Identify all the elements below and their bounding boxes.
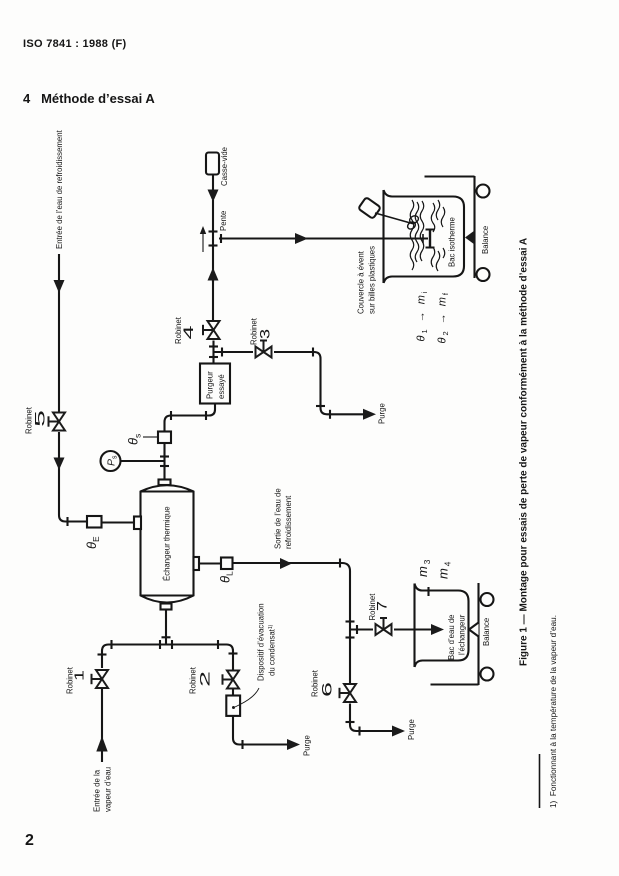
wire: right vertical down to robinet 6 — [349, 630, 351, 683]
wire: robinet 7 branch — [350, 628, 373, 630]
wire: steam inlet up — [101, 688, 103, 762]
svg-text:refroidissement: refroidissement — [284, 495, 293, 549]
tick after elbow — [66, 517, 68, 526]
tick after elbow — [358, 727, 360, 736]
tick after tee — [221, 348, 223, 357]
svg-text:Purge: Purge — [407, 719, 416, 740]
wire: valve 5 down to elbow and right to thetaE — [59, 432, 87, 522]
tick after lower elbow — [329, 410, 331, 419]
valve robinet 6 — [340, 684, 357, 702]
svg-text:θ2 → mf: θ2 → mf — [437, 291, 451, 344]
svg-text:vapeur d’eau: vapeur d’eau — [104, 767, 113, 812]
wire: theta-s down to vessel nozzle — [163, 443, 165, 480]
arrow up on steam inlet — [96, 736, 107, 752]
wire: valve 6 down elbow right to purge — [350, 704, 393, 732]
wire: purgeur outlet elbow left — [165, 404, 216, 432]
bac d'eau de l'echangeur beaker — [415, 584, 469, 668]
dip tube tee bar — [429, 230, 431, 248]
arrow down on vent line — [208, 190, 219, 203]
wire: valve 7 to bac d'eau — [394, 628, 432, 630]
valve robinet 5 — [49, 413, 66, 431]
tick near elbow — [170, 411, 172, 420]
balance 2 platform line — [477, 583, 479, 685]
svg-text:Balance: Balance — [481, 226, 490, 254]
svg-text:Purgeur: Purgeur — [206, 371, 215, 399]
flange tick upper — [209, 230, 218, 232]
wire: device down elbow right to purge — [233, 716, 288, 745]
balance 2 pointer — [469, 623, 479, 637]
arrow down on cooling inlet — [54, 280, 65, 293]
arrow up on steam line — [208, 268, 219, 281]
theta-s label lead — [143, 436, 158, 438]
valve robinet 3 — [256, 341, 272, 358]
vessel bottom nozzle — [161, 604, 172, 610]
svg-text:θs: θs — [126, 434, 143, 445]
svg-text:θ1 → mi: θ1 → mi — [416, 289, 430, 341]
svg-text:Purge: Purge — [303, 735, 312, 756]
tick after elbow — [241, 740, 243, 749]
arrow into bac d'eau — [431, 624, 444, 635]
balance 1 wheel bottom — [477, 268, 490, 281]
svg-text:4: 4 — [180, 325, 196, 339]
footnote rule — [539, 754, 541, 808]
valve robinet 2 — [223, 671, 240, 689]
tick on outlet horizontal — [205, 411, 207, 420]
svg-text:1) Fonctionnant à la températ: 1) Fonctionnant à la température de la v… — [549, 615, 558, 808]
tick on header left — [110, 640, 112, 649]
wire: valve 2 to device — [232, 689, 234, 695]
balance 1 wheel top — [477, 185, 490, 198]
svg-text:l’échangeur: l’échangeur — [458, 614, 467, 655]
svg-text:1: 1 — [72, 670, 87, 681]
theta-s sensor box — [158, 432, 171, 444]
right vertical: ticks — [346, 620, 355, 622]
water ripples — [410, 200, 445, 271]
casse-vide device (rounded rect) — [206, 153, 219, 175]
valve robinet 4 — [203, 321, 220, 339]
wire: vessel bottom to header — [165, 610, 167, 645]
heading 4 Méthode d'essai A — [23, 91, 155, 106]
balance 2 floor line — [431, 683, 479, 685]
junction ticks at vessel drop — [159, 640, 161, 649]
condensate evacuation device box — [226, 696, 240, 716]
wire: robinet 3 branch from tee — [214, 351, 254, 353]
svg-text:Casse-vide: Casse-vide — [220, 147, 229, 186]
svg-text:Entrée de la: Entrée de la — [93, 769, 102, 812]
svg-text:essayé: essayé — [217, 374, 226, 399]
wire: valve 4 to purgeur — [212, 341, 214, 364]
wire: steam line down to valve 4 — [212, 280, 214, 320]
balance 2 wheel bottom — [481, 668, 494, 681]
Ps gauge circle — [101, 451, 121, 471]
water level tick in bac d'eau — [427, 587, 429, 596]
tick before elbow — [346, 721, 355, 723]
stirrer shaft — [375, 213, 414, 224]
svg-text:6: 6 — [319, 682, 335, 697]
arrow right on sortie line — [280, 558, 292, 569]
leader to dispositif label — [235, 688, 259, 707]
svg-text:Sortie de l’eau de: Sortie de l’eau de — [274, 488, 283, 549]
svg-text:5: 5 — [32, 410, 48, 427]
svg-text:m4: m4 — [436, 560, 453, 579]
svg-text:2: 2 — [197, 671, 213, 687]
wire: vent line down to tee — [212, 200, 214, 239]
dot in device — [232, 706, 235, 709]
wire: condensate line into bac isotherme — [219, 237, 428, 239]
cross tick on drop — [162, 636, 171, 638]
wire: valve 1 up elbow right into header — [102, 645, 233, 670]
balance 1 platform line — [473, 176, 475, 278]
svg-text:Dispositif d’évacuation: Dispositif d’évacuation — [257, 603, 266, 681]
heat exchanger vessel — [141, 485, 194, 602]
svg-text:7: 7 — [374, 601, 390, 611]
arrow down below valve 5 — [54, 458, 65, 471]
wire: cooling inlet down — [58, 254, 60, 412]
svg-text:Balance: Balance — [482, 618, 491, 646]
wire: thetaL to right, elbow down — [233, 563, 351, 630]
vessel left nozzle — [134, 517, 141, 530]
tick before valve 7 — [356, 625, 358, 634]
valve robinet 7 — [376, 618, 392, 635]
purge arrow 2 — [363, 409, 376, 420]
svg-text:Échangeur thermique: Échangeur thermique — [163, 506, 172, 581]
tick on header right — [217, 640, 219, 649]
wire: valve 3 right, elbow down, elbow right to purge — [274, 352, 364, 414]
svg-text:Figure 1 — Montage pour essais: Figure 1 — Montage pour essais de perte … — [519, 238, 530, 666]
svg-text:Bac isotherme: Bac isotherme — [448, 217, 457, 267]
flange tick left riser — [98, 653, 107, 655]
vessel right nozzle — [194, 557, 200, 570]
balance 1 top frame line — [425, 175, 475, 177]
balance 1 pointer — [465, 231, 475, 245]
Ps tap line — [121, 460, 165, 462]
svg-text:Pente: Pente — [219, 211, 228, 231]
wire: tee down to up-arrow — [212, 239, 214, 283]
flange tick above Ps tap — [160, 455, 169, 457]
purge arrow 3 — [392, 726, 405, 737]
wire: thetaE to vessel left nozzle — [102, 521, 135, 523]
flow arrow (thin) pointing up — [200, 226, 206, 252]
bac isotherme beaker — [384, 190, 465, 283]
svg-text:θL: θL — [218, 571, 235, 583]
flange tick lower — [209, 244, 218, 246]
purgeur essayé box — [200, 364, 230, 404]
wire: vessel right nozzle to thetaL — [199, 562, 221, 564]
stirrer impeller loops — [406, 214, 419, 230]
page number 2 — [25, 832, 34, 850]
heat exchanger vessel top nozzle — [159, 480, 171, 486]
tick before elbow on horizontal — [312, 348, 314, 357]
purge arrow 1 — [287, 739, 300, 750]
svg-text:θE: θE — [84, 536, 101, 549]
arrow right on condensate line — [295, 233, 308, 244]
svg-text:Purge: Purge — [378, 403, 387, 424]
flange tick right riser — [229, 652, 238, 654]
svg-text:Couvercle à évent: Couvercle à évent — [357, 250, 366, 314]
svg-text:m3: m3 — [415, 558, 432, 577]
svg-text:sur billes plastiques: sur billes plastiques — [368, 246, 377, 314]
valve robinet 1 — [92, 670, 109, 688]
flange tick below tee — [209, 356, 218, 358]
tick on vertical before lower elbow — [316, 405, 325, 407]
theta-E sensor box — [87, 516, 102, 528]
svg-text:Entrée de l’eau de refroidisse: Entrée de l’eau de refroidissement — [55, 129, 64, 249]
svg-text:du condensat1): du condensat1) — [268, 624, 277, 676]
stirrer motor — [358, 197, 381, 219]
theta-L sensor box — [221, 558, 233, 570]
header ISO 7841 : 1988 (F) — [23, 38, 127, 50]
tick after tee on condensate line — [220, 234, 222, 243]
balance 2 wheel top — [481, 593, 494, 606]
svg-text:3: 3 — [257, 329, 273, 339]
wire: casse-vide to down-arrow — [212, 175, 214, 191]
tick before elbow — [339, 559, 341, 568]
svg-text:Bac d’eau de: Bac d’eau de — [447, 614, 456, 660]
flange tick below Ps tap — [160, 465, 169, 467]
flange tick above tee — [209, 345, 218, 347]
